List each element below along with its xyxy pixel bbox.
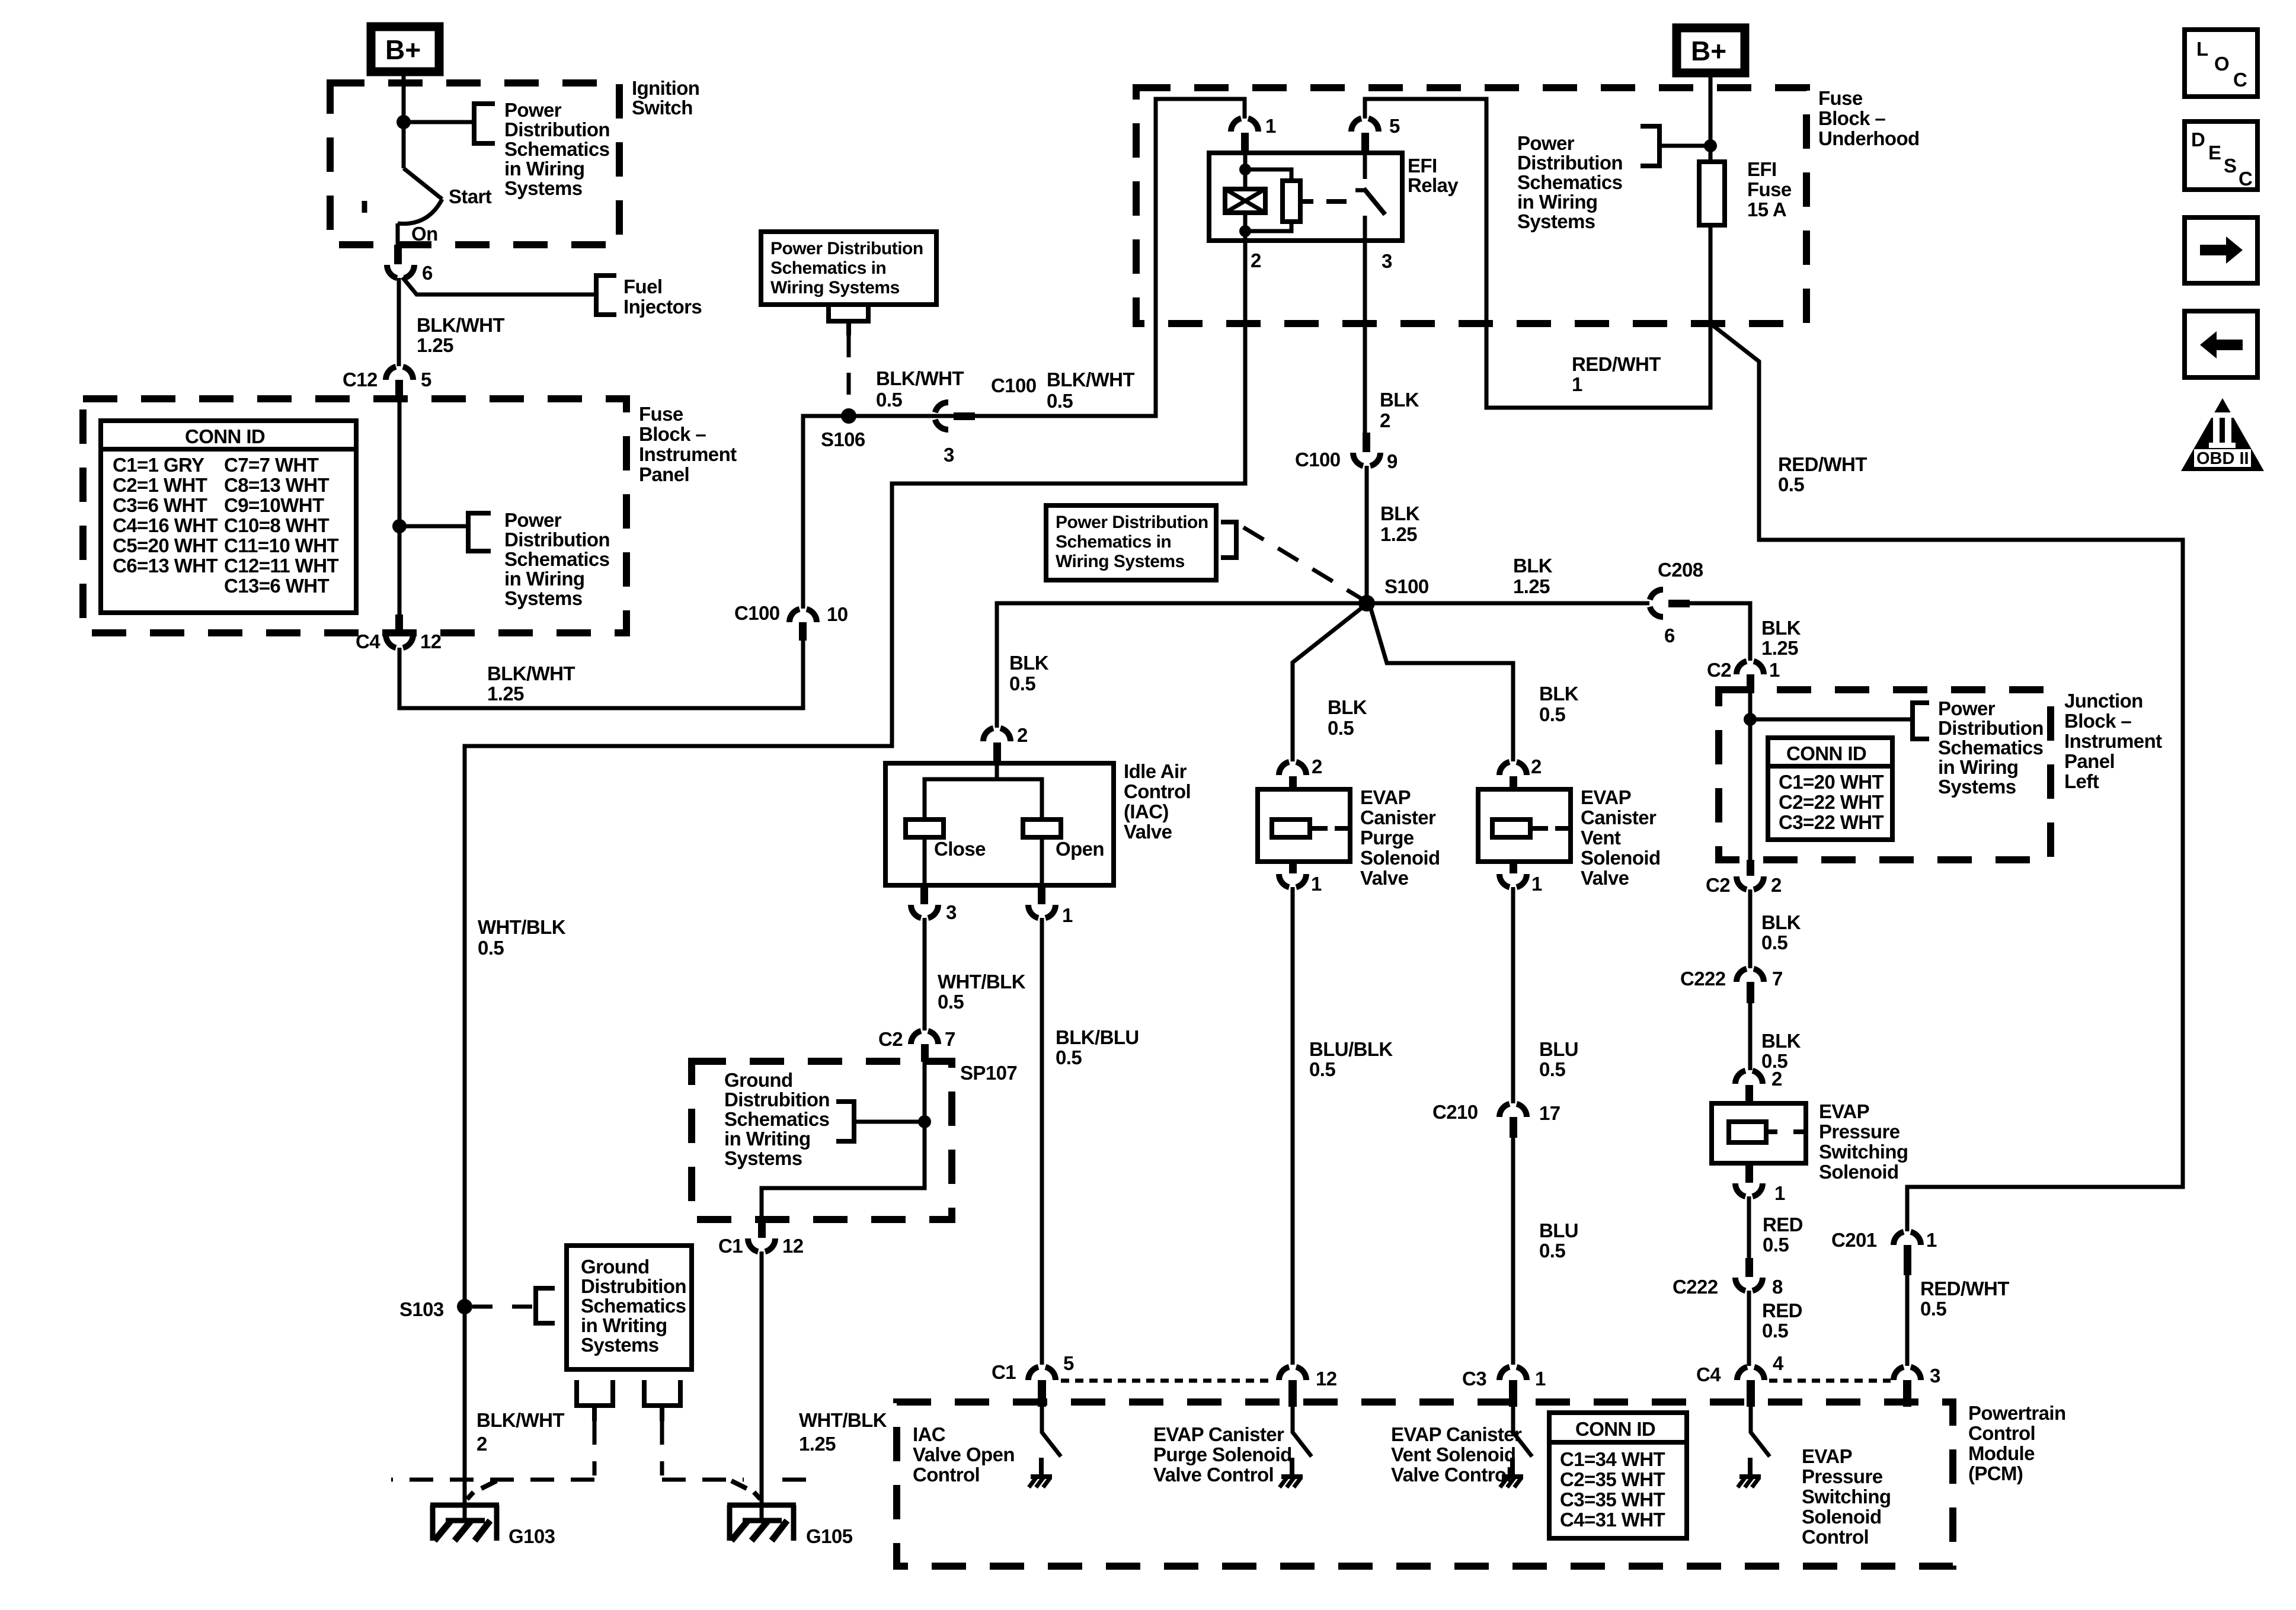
- svg-text:2: 2: [1312, 756, 1322, 777]
- svg-text:Switch: Switch: [632, 97, 693, 119]
- wire: pressure pin1 to C222-8: [1747, 1196, 1751, 1258]
- svg-text:Schematics: Schematics: [581, 1295, 686, 1317]
- svg-text:C12: C12: [343, 369, 378, 391]
- relay coil wire to pin 2: [1243, 213, 1248, 241]
- svg-text:BLK: BLK: [1761, 617, 1801, 639]
- svg-text:EFI: EFI: [1408, 155, 1437, 177]
- svg-text:Instrument: Instrument: [639, 443, 737, 465]
- svg-text:Vent Solenoid: Vent Solenoid: [1391, 1443, 1515, 1465]
- connector IAC pin 2: female arc: [983, 728, 1011, 741]
- svg-text:C8=13 WHT: C8=13 WHT: [224, 474, 330, 496]
- wire: B+ down to EFI fuse: [1709, 73, 1713, 162]
- connector purge pin 2: female arc: [1279, 762, 1306, 775]
- connector C222 pin 8: male stub: [1745, 1258, 1753, 1277]
- svg-text:Power: Power: [504, 509, 562, 531]
- svg-text:Solenoid: Solenoid: [1581, 847, 1661, 869]
- svg-text:Start: Start: [449, 185, 492, 207]
- connector vent pin 2: male stub: [1510, 776, 1517, 790]
- connector C201 pin 1: female arc: [1894, 1232, 1921, 1245]
- svg-text:BLU: BLU: [1539, 1038, 1578, 1060]
- svg-text:0.5: 0.5: [1761, 932, 1787, 953]
- dashed link C1-5 to 12: [1061, 1379, 1274, 1383]
- svg-text:C210: C210: [1432, 1101, 1478, 1123]
- svg-text:C11=10 WHT: C11=10 WHT: [224, 534, 338, 556]
- wire through junction block: [1748, 693, 1753, 860]
- connector C208: female arc: [1650, 590, 1663, 617]
- dashed link to S100: [1243, 527, 1363, 600]
- wire: branch to fuel injectors: [402, 277, 596, 295]
- svg-text:Systems: Systems: [581, 1334, 659, 1356]
- refer bracket (power distribution, ignition switch): [474, 104, 495, 143]
- OBD II triangle icon: [2181, 398, 2264, 471]
- pressure solenoid coil: [1729, 1122, 1806, 1142]
- svg-text:Valve: Valve: [1581, 867, 1629, 889]
- svg-text:C100: C100: [991, 375, 1037, 396]
- svg-text:Power: Power: [1517, 132, 1575, 154]
- connector C2 pin 7: male stub: [921, 1044, 929, 1062]
- wire to power distribution bracket (junction block): [1750, 718, 1913, 722]
- EVAP pressure switching solenoid box: [1712, 1103, 1806, 1163]
- wire: connector 6 to C12: [397, 278, 401, 366]
- dashed link to G103: [391, 1421, 594, 1480]
- ignition switch blade (to Start): [404, 168, 442, 199]
- svg-text:6: 6: [422, 262, 433, 284]
- svg-text:2: 2: [1531, 756, 1542, 777]
- svg-text:0.5: 0.5: [1762, 1320, 1788, 1342]
- connector C100 pin 3: male stub: [954, 412, 975, 420]
- connector C2 pin 2: female arc: [1737, 876, 1764, 889]
- svg-text:D: D: [2191, 129, 2205, 151]
- svg-text:C222: C222: [1680, 968, 1726, 990]
- PCM switch blade (vent): [1513, 1407, 1532, 1457]
- connector PCM pin 3 stub: [1903, 1380, 1911, 1407]
- purge solenoid coil: [1272, 820, 1349, 837]
- svg-text:WHT/BLK: WHT/BLK: [478, 916, 566, 938]
- svg-text:Canister: Canister: [1360, 806, 1436, 828]
- svg-text:3: 3: [946, 901, 957, 923]
- svg-text:2: 2: [1771, 1068, 1782, 1090]
- wire: relay pin3 down: [1363, 241, 1367, 433]
- svg-text:C2: C2: [1707, 659, 1731, 681]
- svg-text:3: 3: [1930, 1365, 1940, 1387]
- svg-text:17: 17: [1539, 1102, 1560, 1124]
- svg-text:Valve: Valve: [1124, 821, 1172, 843]
- svg-text:Schematics: Schematics: [504, 138, 609, 160]
- connector PCM pin 12: male stub: [1288, 1380, 1297, 1407]
- svg-text:CONN ID: CONN ID: [1575, 1418, 1655, 1440]
- svg-text:C12=11 WHT: C12=11 WHT: [224, 555, 338, 577]
- svg-text:EVAP: EVAP: [1581, 786, 1631, 808]
- connector C2 pin 1: male stub: [1747, 674, 1754, 693]
- svg-text:1.25: 1.25: [1761, 637, 1798, 659]
- connector pressure pin 1: male stub: [1745, 1163, 1753, 1183]
- wire: RED/WHT 0.5 diagonal from fuse node: [1710, 324, 2183, 1231]
- connector IAC pin 3: female arc: [911, 905, 938, 918]
- connector 6: female arc: [387, 265, 414, 278]
- svg-text:12: 12: [420, 630, 442, 652]
- svg-text:CONN ID: CONN ID: [185, 425, 265, 447]
- svg-text:12: 12: [1316, 1368, 1337, 1390]
- svg-text:6: 6: [1664, 625, 1675, 646]
- svg-text:BLK/WHT: BLK/WHT: [876, 367, 964, 389]
- svg-text:C9=10WHT: C9=10WHT: [224, 494, 324, 516]
- svg-text:C1: C1: [992, 1361, 1016, 1383]
- svg-text:Purge Solenoid: Purge Solenoid: [1153, 1443, 1292, 1465]
- connector PCM pin 12: female arc: [1279, 1367, 1306, 1380]
- wire: vent to C210: [1511, 887, 1515, 1103]
- connector PCM C3 pin 1: male stub: [1509, 1380, 1517, 1407]
- svg-text:On: On: [411, 223, 438, 245]
- connector C4: female arc: [386, 635, 413, 648]
- svg-text:BLK: BLK: [1761, 1030, 1801, 1052]
- svg-text:0.5: 0.5: [938, 991, 964, 1013]
- svg-text:Solenoid: Solenoid: [1819, 1161, 1899, 1183]
- svg-text:C3=35 WHT: C3=35 WHT: [1560, 1489, 1665, 1510]
- bracket right of box (S100): [1221, 522, 1236, 558]
- IAC valve box: [885, 763, 1114, 885]
- svg-text:in Wiring: in Wiring: [504, 158, 584, 180]
- svg-text:Idle Air: Idle Air: [1124, 760, 1187, 782]
- svg-text:RED/WHT: RED/WHT: [1778, 453, 1867, 475]
- svg-text:Distribution: Distribution: [1938, 717, 2044, 739]
- svg-text:0.5: 0.5: [1056, 1046, 1082, 1068]
- svg-text:1.25: 1.25: [1513, 575, 1550, 597]
- wire: C100-9 to S100: [1365, 466, 1369, 603]
- wire: C1-12 to G105: [760, 1251, 764, 1521]
- svg-text:Pressure: Pressure: [1819, 1121, 1900, 1142]
- svg-text:BLK/WHT: BLK/WHT: [487, 662, 575, 684]
- IAC internal wiring: [925, 763, 1042, 885]
- PCM ground (IAC): [1029, 1458, 1052, 1487]
- connector pressure pin 1: female arc: [1735, 1183, 1763, 1196]
- svg-text:G105: G105: [806, 1525, 853, 1547]
- svg-text:Valve: Valve: [1360, 867, 1409, 889]
- wire to power distribution bracket: [404, 120, 474, 124]
- svg-text:RED: RED: [1763, 1214, 1803, 1235]
- connector C2 pin 2: male stub: [1747, 860, 1754, 876]
- svg-text:Control: Control: [1802, 1526, 1869, 1548]
- svg-text:Schematics in: Schematics in: [1056, 532, 1171, 552]
- svg-text:Fuse: Fuse: [639, 403, 683, 425]
- IAC open coil: [1023, 820, 1061, 837]
- svg-text:5: 5: [1063, 1352, 1074, 1374]
- relay coil box with X: [1225, 189, 1265, 213]
- svg-text:8: 8: [1772, 1276, 1783, 1298]
- relay switch blade: [1364, 188, 1385, 215]
- dashed wire to S106: [847, 335, 851, 412]
- svg-text:BLK/WHT: BLK/WHT: [1047, 369, 1134, 391]
- svg-text:Distribution: Distribution: [504, 529, 610, 550]
- connector purge pin 1: male stub: [1289, 862, 1297, 873]
- svg-text:C1=34 WHT: C1=34 WHT: [1560, 1448, 1665, 1470]
- svg-text:CONN ID: CONN ID: [1786, 742, 1866, 764]
- svg-text:0.5: 0.5: [1328, 717, 1354, 739]
- PCM ground (purge): [1280, 1458, 1303, 1487]
- PCM dashed box: [897, 1402, 1953, 1566]
- svg-text:0.5: 0.5: [1047, 390, 1073, 412]
- svg-text:BLK: BLK: [1539, 683, 1579, 705]
- wire: IAC pin 1 to PCM C1-5: [1040, 918, 1044, 1365]
- svg-text:Solenoid: Solenoid: [1360, 847, 1440, 869]
- svg-text:Module: Module: [1968, 1442, 2035, 1464]
- svg-text:5: 5: [421, 369, 431, 391]
- svg-text:C3: C3: [1462, 1368, 1486, 1390]
- DESC icon box: [2185, 121, 2257, 190]
- svg-text:Switching: Switching: [1819, 1141, 1908, 1163]
- svg-text:BLK: BLK: [1761, 911, 1801, 933]
- svg-text:2: 2: [1251, 249, 1261, 271]
- svg-text:Vent: Vent: [1581, 827, 1621, 849]
- svg-text:0.5: 0.5: [1539, 1058, 1565, 1080]
- wire: C2-2 to C222-7: [1748, 889, 1753, 968]
- svg-text:Close: Close: [934, 838, 986, 860]
- svg-text:0.5: 0.5: [1009, 673, 1035, 694]
- svg-text:BLK: BLK: [1009, 652, 1049, 674]
- node: SP107 splice dot: [918, 1115, 931, 1128]
- svg-text:1.25: 1.25: [417, 334, 453, 356]
- power symbol B+ (right): [1677, 28, 1745, 73]
- node: junction dot on B+ feed: [396, 115, 411, 129]
- svg-text:C3=6 WHT: C3=6 WHT: [113, 494, 207, 516]
- connector C201 pin 1: male stub: [1904, 1245, 1911, 1275]
- svg-text:RED/WHT: RED/WHT: [1572, 353, 1661, 375]
- svg-text:C1: C1: [718, 1235, 743, 1257]
- ignition switch arc (Start to On): [398, 199, 442, 223]
- svg-text:1: 1: [1535, 1368, 1546, 1390]
- connector C222 pin 8: female arc: [1735, 1278, 1763, 1291]
- power distribution schematics box (above S100): [1046, 505, 1216, 580]
- connector PCM pin 3: female arc: [1894, 1367, 1921, 1380]
- svg-text:0.5: 0.5: [1309, 1058, 1335, 1080]
- svg-text:BLK: BLK: [1513, 555, 1553, 577]
- CONN ID table (junction block): [1768, 738, 1892, 840]
- connector relay pin 1: male stub: [1241, 133, 1249, 154]
- CONN ID table (PCM): [1549, 1413, 1687, 1538]
- connector PCM C3 pin 1: female arc: [1499, 1367, 1527, 1380]
- svg-text:G103: G103: [509, 1525, 555, 1547]
- IAC close coil: [906, 820, 944, 837]
- svg-text:Distribution: Distribution: [504, 119, 610, 140]
- fuse block underhood dashed box: [1136, 88, 1806, 324]
- svg-text:EVAP: EVAP: [1819, 1100, 1869, 1122]
- svg-text:Block –: Block –: [639, 423, 706, 445]
- svg-text:BLK/WHT: BLK/WHT: [477, 1409, 564, 1431]
- svg-text:C2=35 WHT: C2=35 WHT: [1560, 1468, 1665, 1490]
- wire: relay pin 2 ground run: [465, 241, 1245, 1521]
- svg-text:1: 1: [1062, 904, 1073, 926]
- svg-text:2: 2: [1017, 724, 1028, 746]
- svg-text:EFI: EFI: [1747, 158, 1777, 180]
- svg-text:OBD II: OBD II: [2196, 449, 2249, 468]
- svg-text:Systems: Systems: [1938, 776, 2016, 798]
- svg-text:in Wiring: in Wiring: [1938, 756, 2018, 778]
- relay resistor: [1283, 181, 1300, 222]
- SP107 dashed box: [692, 1061, 952, 1219]
- svg-text:WHT/BLK: WHT/BLK: [938, 971, 1026, 993]
- connector PCM C4 pin 4: female arc: [1737, 1367, 1764, 1380]
- ignition switch dashed box: [330, 83, 619, 245]
- svg-text:1: 1: [1311, 873, 1322, 895]
- svg-text:S106: S106: [821, 428, 865, 450]
- svg-text:Valve Open: Valve Open: [913, 1443, 1015, 1465]
- svg-text:BLK/WHT: BLK/WHT: [417, 314, 504, 336]
- svg-text:Ground: Ground: [724, 1069, 793, 1091]
- connector PCM C4 pin 4: male stub: [1747, 1380, 1755, 1407]
- svg-text:3: 3: [1382, 250, 1392, 272]
- connector C222 pin 7: female arc: [1737, 969, 1764, 982]
- wire to power distribution bracket (underhood): [1659, 144, 1710, 148]
- node: junction dot in fuse block: [392, 519, 407, 533]
- svg-text:S: S: [2224, 155, 2236, 177]
- connector vent pin 1: female arc: [1499, 874, 1527, 887]
- connector C100 pin 9: female arc: [1353, 453, 1380, 466]
- svg-text:7: 7: [945, 1028, 955, 1050]
- connector pressure pin 2: female arc: [1735, 1071, 1763, 1084]
- svg-text:C5=20 WHT: C5=20 WHT: [113, 534, 218, 556]
- svg-text:Systems: Systems: [504, 177, 583, 199]
- svg-text:Instrument: Instrument: [2064, 730, 2162, 752]
- svg-text:Systems: Systems: [504, 587, 583, 609]
- svg-text:in Wiring: in Wiring: [1517, 191, 1597, 213]
- connector C100 pin 10: male stub: [799, 622, 807, 641]
- refer bracket (power distribution, underhood): [1641, 126, 1659, 166]
- PCM switch blade (purge): [1293, 1407, 1312, 1457]
- svg-text:C1=20 WHT: C1=20 WHT: [1779, 771, 1884, 793]
- connector pressure pin 2: male stub: [1745, 1085, 1753, 1103]
- svg-text:Panel: Panel: [639, 463, 689, 485]
- wire: S100 left horizontal to IAC: [997, 603, 1367, 728]
- wire: C210 to PCM C3-1: [1511, 1138, 1515, 1365]
- svg-text:C10=8 WHT: C10=8 WHT: [224, 514, 330, 536]
- svg-text:2: 2: [1771, 874, 1782, 896]
- wire: S100 right horizontal to C208: [1367, 601, 1649, 606]
- junction block dashed box: [1719, 690, 2051, 860]
- connector IAC pin 1: male stub: [1038, 885, 1045, 904]
- wire: C208 to C2-1: [1690, 603, 1750, 661]
- PCM ground (vent): [1500, 1458, 1523, 1487]
- svg-text:Fuse: Fuse: [1747, 178, 1792, 200]
- svg-text:12: 12: [782, 1235, 804, 1257]
- node: splice S100: [1358, 595, 1375, 612]
- connector C210 pin 17: male stub: [1510, 1117, 1517, 1138]
- svg-text:C: C: [2233, 69, 2247, 91]
- bracket stub right (below ground box): [644, 1380, 680, 1421]
- svg-text:Purge: Purge: [1360, 827, 1414, 849]
- refer bracket (power distribution, junction block): [1913, 703, 1929, 739]
- svg-text:1: 1: [1774, 1182, 1785, 1204]
- connector vent pin 2: female arc: [1499, 762, 1527, 775]
- wire: C4 down, right, up to C100-10: [399, 637, 803, 708]
- svg-text:C222: C222: [1673, 1276, 1718, 1298]
- wire: IAC pin 3 to C2-7: [923, 918, 927, 1030]
- wire: purge to PCM 12: [1291, 887, 1295, 1365]
- svg-text:0.5: 0.5: [1539, 703, 1565, 725]
- svg-text:(PCM): (PCM): [1968, 1462, 2023, 1484]
- dashed link C4-4 to 3: [1769, 1379, 1891, 1383]
- connector C222 pin 7: male stub: [1747, 982, 1754, 1003]
- svg-text:Relay: Relay: [1408, 174, 1459, 196]
- svg-text:BLK: BLK: [1328, 696, 1367, 718]
- svg-text:2: 2: [1380, 409, 1390, 431]
- svg-text:Schematics: Schematics: [724, 1108, 829, 1130]
- wire: EFI fuse to box edge: [1709, 225, 1713, 324]
- svg-text:C6=13 WHT: C6=13 WHT: [113, 555, 218, 577]
- svg-text:3: 3: [944, 444, 954, 466]
- connector C2 pin 7: female arc: [911, 1031, 938, 1044]
- svg-text:Left: Left: [2064, 770, 2099, 792]
- node: relay coil top dot: [1239, 164, 1251, 175]
- ground G103: [430, 1505, 499, 1541]
- svg-text:in Writing: in Writing: [581, 1314, 667, 1336]
- wire: C100-10 up to S106 horizontal: [803, 416, 1156, 609]
- refer bracket (ground distribution, SP107): [836, 1102, 854, 1141]
- svg-text:Pressure: Pressure: [1802, 1465, 1883, 1487]
- svg-text:Control: Control: [1968, 1422, 2035, 1444]
- LOC icon box: [2185, 30, 2257, 97]
- svg-text:SP107: SP107: [960, 1062, 1017, 1084]
- connector IAC pin 1: female arc: [1028, 905, 1056, 918]
- svg-text:1: 1: [1572, 373, 1582, 395]
- svg-text:Panel: Panel: [2064, 750, 2115, 772]
- left arrow icon box: [2185, 311, 2257, 377]
- svg-text:Power Distribution: Power Distribution: [770, 239, 923, 258]
- connector relay pin 1: female arc: [1231, 119, 1258, 132]
- refer bracket (ground distribution, S103): [536, 1288, 555, 1323]
- svg-text:E: E: [2208, 142, 2221, 164]
- svg-text:Power: Power: [504, 99, 562, 121]
- svg-text:C100: C100: [1295, 449, 1341, 470]
- svg-text:Control: Control: [1124, 780, 1191, 802]
- svg-text:EVAP Canister: EVAP Canister: [1391, 1423, 1522, 1445]
- svg-text:2: 2: [477, 1433, 487, 1455]
- svg-text:in Writing: in Writing: [724, 1128, 811, 1150]
- svg-text:C2: C2: [878, 1028, 903, 1050]
- dashed link S103 to bracket: [472, 1305, 535, 1309]
- svg-text:C4=31 WHT: C4=31 WHT: [1560, 1509, 1665, 1531]
- svg-text:Schematics: Schematics: [1517, 171, 1622, 193]
- relay switch to pin 3: [1363, 216, 1367, 241]
- svg-text:Powertrain: Powertrain: [1968, 1402, 2066, 1424]
- svg-text:Distrubition: Distrubition: [724, 1089, 830, 1110]
- svg-text:IAC: IAC: [913, 1423, 945, 1445]
- bracket stub left (below ground box): [577, 1380, 613, 1421]
- PCM switch blade (IAC): [1042, 1407, 1061, 1457]
- svg-text:C1=1 GRY: C1=1 GRY: [113, 454, 204, 476]
- node: dot above EFI fuse: [1704, 139, 1717, 152]
- connector C100 pin 10: female arc: [789, 609, 817, 622]
- refer bracket (fuel injectors): [596, 276, 616, 315]
- svg-text:L: L: [2196, 38, 2208, 60]
- svg-text:9: 9: [1387, 450, 1398, 472]
- relay switch fixed contact: [1355, 153, 1365, 190]
- connector C100 pin 9: male stub: [1363, 433, 1370, 452]
- refer bracket (power distribution, fuse block IP): [468, 513, 491, 551]
- svg-text:1: 1: [1926, 1229, 1937, 1251]
- svg-text:B+: B+: [1691, 36, 1726, 66]
- svg-text:Injectors: Injectors: [623, 296, 702, 318]
- wire: C222-8 to PCM C4-4: [1747, 1291, 1751, 1366]
- svg-text:Solenoid: Solenoid: [1802, 1506, 1882, 1528]
- svg-text:EVAP Canister: EVAP Canister: [1153, 1423, 1284, 1445]
- relay resistor loop wires: [1245, 169, 1291, 231]
- svg-text:Ignition: Ignition: [632, 77, 699, 99]
- svg-text:BLK/BLU: BLK/BLU: [1056, 1026, 1139, 1048]
- CONN ID table (fuse block IP): [101, 421, 356, 613]
- ground distribution schematics box (S103): [567, 1246, 692, 1369]
- svg-text:C208: C208: [1658, 559, 1703, 581]
- ignition switch Acc tick: [362, 201, 367, 213]
- connector C12: male stub: [395, 380, 403, 399]
